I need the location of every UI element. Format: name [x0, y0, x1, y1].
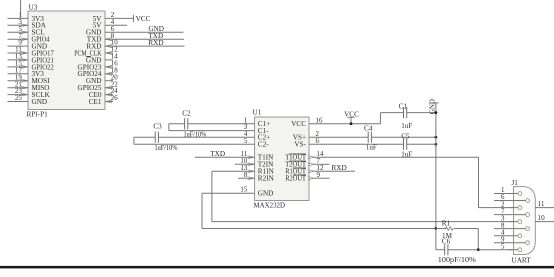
- U3 pin 20 (GND) wire + number: [86, 74, 118, 85]
- U3 pin 3 (SDA) wire + number: [8, 19, 47, 30]
- U1 pin label R2OUT: [285, 175, 306, 183]
- U1 pin label T1IN: [258, 154, 274, 162]
- connector J1 UART DB9 body: [514, 187, 536, 255]
- J1 pin 6 stub + pad: [494, 194, 529, 202]
- svg-text:6: 6: [111, 26, 115, 33]
- J1 pin 7 stub + pad: [494, 208, 529, 216]
- wire U1 pin 1 C1+ to C2: [169, 117, 255, 124]
- U3 reference designator: [29, 4, 38, 12]
- sheet border bottom: [0, 266, 554, 269]
- capacitor C1 (1uF): [399, 102, 413, 130]
- svg-text:19: 19: [15, 74, 22, 81]
- wire 10 at J1 right: [535, 214, 554, 222]
- wire U1 pin 4 C2+ to C3: [134, 131, 255, 138]
- net label GND on U3 pin 6 wire: [148, 25, 164, 33]
- U1 part name MAX232D: [254, 201, 286, 209]
- svg-text:8: 8: [501, 222, 505, 229]
- svg-text:1uF: 1uF: [401, 122, 412, 130]
- svg-text:13: 13: [15, 54, 22, 61]
- U1 pin label T1OUT: [285, 154, 306, 162]
- U3 pin 12 (PCM_CLK) wire + number: [74, 47, 118, 58]
- wire U1 pin 15 GND to ground net: [202, 187, 436, 229]
- J1 reference designator: [512, 179, 519, 187]
- U3 pin 6 (GND) wire + number: [86, 26, 183, 37]
- net label RXD on U3 pin 10 wire: [148, 39, 163, 47]
- svg-text:RXD: RXD: [332, 164, 347, 172]
- U3 pin 11 (GPIO17) wire + number: [8, 47, 55, 58]
- capacitor C6 (100pF/10%): [436, 229, 478, 265]
- capacitor C4 (1uF): [364, 124, 377, 151]
- svg-text:CE1: CE1: [89, 98, 102, 106]
- svg-text:MAX232D: MAX232D: [254, 201, 286, 209]
- U3 pin 24 (CE0) wire + number: [89, 88, 119, 99]
- J1 pin 8 stub + pad: [494, 222, 529, 230]
- svg-text:VCC: VCC: [136, 15, 151, 23]
- U1 pin label VS-: [294, 141, 306, 149]
- svg-text:VCC: VCC: [344, 110, 359, 118]
- wire U1 pin 7 T2OUT stub: [308, 158, 330, 166]
- U3 pin 8 (TXD) wire + number: [87, 33, 184, 44]
- J1 pin 4 stub + pad: [494, 229, 522, 237]
- connector U3 RPI-P1 body: [28, 11, 105, 110]
- junction VS+ bypass to ground net: [435, 136, 438, 139]
- U1 reference designator: [253, 109, 262, 117]
- svg-text:1: 1: [501, 187, 505, 194]
- wire U1 pin 10 T2IN stub: [235, 158, 255, 166]
- svg-text:14: 14: [317, 151, 324, 158]
- U1 pin label R2IN: [258, 175, 275, 183]
- svg-text:2: 2: [501, 201, 505, 208]
- svg-text:GND: GND: [32, 98, 48, 106]
- J1 part name UART: [512, 256, 532, 264]
- svg-text:15: 15: [240, 187, 247, 194]
- J1 pin 5 stub + pad: [501, 243, 522, 251]
- svg-text:UART: UART: [512, 256, 532, 264]
- junction R1/C6 to J1 pin 5: [477, 248, 480, 251]
- U3 pin 18 (GPIO24) wire + number: [78, 67, 119, 78]
- svg-text:U3: U3: [29, 4, 38, 12]
- wire U1 pin 13 R1IN to J1 pin 3: [212, 165, 518, 222]
- U1 pin label T2IN: [258, 161, 274, 169]
- U3 pin 17 (3V3) wire + number: [8, 67, 45, 78]
- U3 pin 22 (GPIO25) wire + number: [78, 81, 119, 92]
- op-amp/IC U1 MAX232D body: [255, 117, 309, 201]
- U3 pin 26 (CE1) wire + number: [89, 95, 119, 106]
- svg-text:4: 4: [244, 131, 248, 138]
- wire U1 pin 16 VCC to C1: [309, 113, 436, 125]
- svg-text:4: 4: [501, 229, 505, 236]
- svg-text:C4: C4: [364, 124, 373, 132]
- J1 pin 1 stub + pad: [494, 187, 522, 195]
- svg-text:C1: C1: [399, 102, 408, 110]
- U3 pin 9 (GND) wire + number: [8, 40, 48, 51]
- U3 pin 7 (GPIO4) wire + number: [8, 33, 50, 44]
- J1 pin 3 stub + pad: [501, 215, 522, 223]
- power port VCC at U3 pin 2: [133, 15, 150, 24]
- wire U1 pin 9 R2OUT stub: [308, 172, 330, 180]
- wire C3 loop vertical: [133, 137, 135, 144]
- junction at VCC tap: [350, 122, 353, 125]
- U3 pin 10 (RXD) wire + number: [86, 40, 184, 51]
- wire U1 pin 2 VS+ through C4: [309, 131, 436, 138]
- U3 pin 14 (GND) wire + number: [86, 54, 118, 65]
- capacitor C3 (1uF/10%): [153, 122, 177, 152]
- ground power port GND (rotated) with ground net wire: [429, 99, 439, 228]
- svg-text:C5: C5: [401, 133, 410, 141]
- J1 pin 9 stub + pad: [494, 236, 529, 244]
- U1 pin label C2-: [258, 141, 269, 149]
- svg-text:1uF/10%: 1uF/10%: [155, 144, 178, 152]
- svg-text:16: 16: [316, 117, 323, 124]
- U3 pin 1 (3V3) wire + number: [8, 12, 45, 23]
- wire U1 pin 5 C2-: [134, 138, 255, 145]
- wire U1 pin 12 R1OUT + net label RXD: [308, 164, 355, 173]
- svg-text:10: 10: [538, 214, 546, 222]
- U3 pin 23 (SCLK) wire + number: [8, 88, 51, 99]
- svg-text:7: 7: [501, 208, 505, 215]
- wire 3V3 riser to sheet top: [20, 0, 22, 18]
- resistor R1 (1M): [436, 220, 478, 241]
- svg-text:5: 5: [244, 138, 248, 145]
- svg-text:GND: GND: [258, 190, 274, 198]
- svg-text:9: 9: [501, 236, 505, 243]
- U3 pin 13 (GPIO21) wire + number: [8, 54, 55, 65]
- U1 pin label R1OUT: [285, 168, 306, 176]
- svg-text:14: 14: [111, 54, 118, 61]
- svg-text:5: 5: [18, 26, 22, 33]
- U1 pin label C1-: [258, 127, 269, 135]
- svg-text:13: 13: [240, 165, 247, 172]
- svg-text:C6: C6: [442, 238, 451, 246]
- U3 part name RPI-P1: [27, 111, 49, 119]
- power port VCC at U1 pin 16: [344, 110, 359, 123]
- svg-text:U1: U1: [253, 109, 262, 117]
- svg-text:C3: C3: [153, 122, 162, 130]
- svg-text:11: 11: [241, 151, 248, 158]
- wire U1 pin 3 C1-: [169, 124, 255, 131]
- svg-text:6: 6: [316, 138, 320, 145]
- wire 11 at J1 right: [535, 200, 554, 208]
- svg-text:VCC: VCC: [291, 120, 306, 128]
- svg-text:TXD: TXD: [210, 150, 225, 158]
- net label TXD + wire to U1 pin 11 T1IN: [195, 150, 255, 159]
- U3 pin 21 (MISO) wire + number: [8, 81, 50, 92]
- U1 pin label GND: [258, 190, 274, 198]
- wire U1 pin 6 VS- through C5: [309, 138, 436, 145]
- svg-text:R1: R1: [442, 220, 451, 228]
- U1 pin label R1IN: [258, 168, 275, 176]
- junction VS- bypass to ground net: [435, 143, 438, 146]
- svg-text:6: 6: [501, 194, 505, 201]
- J1 pin 2 stub + pad: [501, 201, 522, 209]
- U3 pin 4 (5V) wire + number: [93, 19, 127, 30]
- svg-text:RXD: RXD: [148, 39, 163, 47]
- svg-text:20: 20: [111, 74, 118, 81]
- svg-text:9: 9: [317, 172, 321, 179]
- U3 pin 5 (SCL) wire + number: [8, 26, 45, 37]
- svg-text:8: 8: [244, 172, 248, 179]
- U1 pin label T2OUT: [285, 161, 306, 169]
- svg-text:26: 26: [111, 95, 118, 102]
- svg-text:R2IN: R2IN: [258, 175, 275, 183]
- wire R1 right leg down: [477, 229, 479, 250]
- svg-text:3: 3: [501, 215, 505, 222]
- U1 pin label C2+: [258, 134, 270, 142]
- svg-text:RPI-P1: RPI-P1: [27, 111, 49, 119]
- svg-text:J1: J1: [512, 179, 519, 187]
- wire to J1 pin 5: [478, 249, 518, 251]
- svg-text:C2: C2: [182, 109, 191, 117]
- svg-text:5: 5: [501, 243, 505, 250]
- svg-text:100pF/10%: 100pF/10%: [438, 256, 476, 264]
- U3 pin 15 (GPIO22) wire + number: [8, 61, 55, 72]
- net label TXD on U3 pin 8 wire: [148, 32, 163, 40]
- svg-text:C2-: C2-: [258, 141, 269, 149]
- svg-text:R2OUT: R2OUT: [285, 175, 306, 183]
- junction ground net to R1/C6: [435, 227, 438, 230]
- capacitor C2 (1uF/10%): [182, 109, 206, 138]
- U3 pin 25 (GND) wire + number: [8, 95, 48, 106]
- junction C1 to ground net: [435, 111, 438, 114]
- wire C2 loop vertical: [168, 124, 170, 131]
- U3 pin 16 (GPIO23) wire + number: [78, 61, 119, 72]
- U3 pin 19 (MOSI) wire + number: [8, 74, 51, 85]
- capacitor C5 (1uF): [401, 133, 412, 159]
- U1 pin label VCC: [291, 120, 306, 128]
- U1 pin label C1+: [258, 120, 270, 128]
- svg-text:25: 25: [15, 95, 22, 102]
- wire U1 pin 8 R2IN stub: [238, 172, 255, 180]
- wire U1 pin 14 T1OUT to J1 pin 2: [308, 151, 518, 208]
- U3 pin 2 (5V) wire + number: [93, 12, 134, 23]
- svg-text:2: 2: [316, 131, 320, 138]
- svg-text:11: 11: [538, 200, 545, 208]
- U1 pin label VS+: [293, 134, 306, 142]
- svg-text:12: 12: [317, 165, 324, 172]
- svg-text:VS-: VS-: [294, 141, 306, 149]
